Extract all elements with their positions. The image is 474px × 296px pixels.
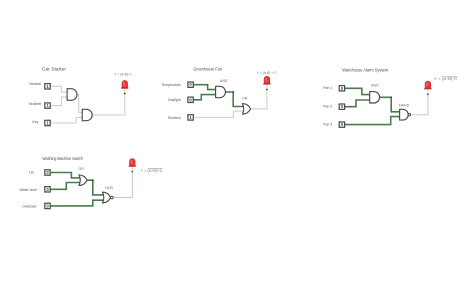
svg-text:Shutters: Shutters — [168, 116, 181, 120]
svg-text:Overload: Overload — [22, 204, 36, 208]
svg-text:Water level: Water level — [20, 188, 38, 192]
svg-text:OR: OR — [79, 167, 85, 171]
svg-text:Pan 2: Pan 2 — [323, 105, 332, 109]
svg-text:Neutral: Neutral — [29, 82, 41, 86]
svg-text:Pan 3: Pan 3 — [323, 123, 332, 127]
svg-text:NOR: NOR — [105, 186, 113, 190]
svg-text:Key: Key — [32, 120, 38, 124]
svg-text:NAND: NAND — [399, 103, 410, 107]
svg-text:Y = (A+B)+C: Y = (A+B)+C — [141, 169, 164, 173]
svg-text:Y = (A·B)·C: Y = (A·B)·C — [114, 73, 132, 77]
svg-text:AND: AND — [371, 84, 379, 88]
svg-text:Seatbelt: Seatbelt — [28, 102, 41, 106]
svg-text:Pan 1: Pan 1 — [323, 86, 332, 90]
svg-text:Lid: Lid — [29, 171, 34, 175]
svg-text:Greenhouse Fan: Greenhouse Fan — [193, 67, 222, 72]
svg-text:Temperature: Temperature — [161, 83, 181, 87]
svg-text:AND: AND — [220, 79, 228, 83]
svg-text:Y = (A·B) + C: Y = (A·B) + C — [257, 71, 278, 75]
svg-text:Daylight: Daylight — [168, 98, 181, 102]
svg-text:OR: OR — [242, 96, 248, 100]
svg-text:Warehouse Alarm System: Warehouse Alarm System — [342, 67, 388, 72]
svg-text:Car Starter: Car Starter — [42, 67, 67, 72]
svg-text:Y = (A·B)·C: Y = (A·B)·C — [434, 77, 458, 81]
svg-text:Washing Machine Switch: Washing Machine Switch — [42, 156, 83, 161]
